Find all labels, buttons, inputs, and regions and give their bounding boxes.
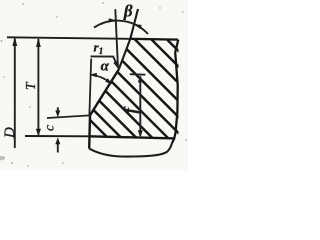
break line curve at bottom: [89, 143, 172, 157]
alpha left arrowhead: [90, 73, 97, 77]
right edge of part: [172, 40, 178, 143]
chamfer slant line (tool edge, extended above for beta): [119, 9, 138, 69]
bottom-left scan blemish: [0, 156, 5, 161]
scan speckles: [1, 2, 187, 167]
hatch line 9: [60, 62, 187, 189]
c upper arrow (down): [57, 107, 59, 112]
T arrow down: [36, 129, 41, 136]
D arrow up: [12, 37, 17, 46]
beta left arrowhead (points right at vertical line): [109, 18, 116, 22]
beta angle arc: [94, 21, 148, 34]
f top reference tick: [130, 73, 146, 76]
f arrow down: [138, 130, 143, 137]
f dimension line: [139, 77, 141, 136]
hatch line 7: [60, 30, 188, 158]
alpha right arrowhead: [105, 78, 112, 84]
bottom face line (extension + part edge): [25, 135, 90, 137]
hatch line 5: [87, 25, 189, 127]
svg-text:T: T: [23, 81, 38, 90]
T dimension line: [37, 39, 39, 135]
beta vertical extension line: [115, 9, 118, 68]
D dimension line: [14, 39, 16, 149]
svg-text:α: α: [101, 59, 110, 75]
r1 leader line: [91, 56, 117, 63]
c lower arrow (up): [57, 143, 59, 153]
svg-text:c: c: [43, 124, 58, 131]
beta right arrowhead (points up-left at slant line): [134, 24, 142, 29]
alpha extension line (vertical from corner1): [89, 59, 91, 115]
scan grain: [9, 4, 186, 168]
alpha angle arc: [92, 75, 111, 83]
hatching (section lines): [60, 25, 188, 188]
f arrow up: [138, 75, 143, 82]
c upper extension line (shoulder level): [47, 115, 90, 118]
hatch line 6: [71, 25, 189, 143]
hole wall (corner1 down through bottom face): [88, 115, 91, 148]
hatch line 11: [60, 90, 158, 188]
r1 leader arrowhead: [113, 61, 118, 70]
hatch line 4: [103, 25, 189, 111]
hatch line 10: [60, 77, 172, 189]
svg-text:D: D: [2, 127, 18, 139]
hatch line 1: [153, 25, 189, 61]
hatch line 8: [60, 46, 188, 174]
svg-text:r1: r1: [94, 40, 104, 58]
top face line (part edge + extension to left): [7, 37, 129, 39]
hatch line 2: [137, 25, 188, 76]
hatch line 3: [121, 25, 189, 93]
svg-text:β: β: [123, 1, 133, 20]
T arrow up: [36, 38, 41, 47]
cone edge (apex to corner1): [90, 69, 119, 115]
